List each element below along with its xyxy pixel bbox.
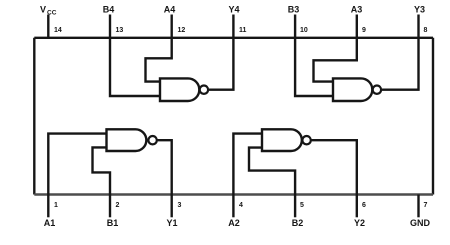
pin 2 stub (B1) bbox=[109, 195, 111, 218]
svg-text:13: 13 bbox=[116, 27, 124, 34]
NAND gate U1D (gate 4) bbox=[160, 78, 199, 101]
wire gate3 output to Y3 pin8 bbox=[381, 38, 418, 90]
svg-text:A3: A3 bbox=[351, 5, 363, 15]
wire A3 pin9 jog to gate3 upper input bbox=[314, 38, 357, 82]
wire gate4 output to Y4 pin11 bbox=[208, 38, 233, 90]
NAND gate U1A (gate 1) bbox=[107, 129, 147, 151]
svg-text:A4: A4 bbox=[164, 5, 176, 15]
NAND gate U1B (gate 2) bbox=[262, 129, 302, 151]
svg-text:B1: B1 bbox=[107, 218, 119, 228]
svg-text:Y2: Y2 bbox=[354, 218, 365, 228]
pin 1 stub (A1) bbox=[47, 195, 49, 218]
svg-text:GND: GND bbox=[410, 218, 431, 228]
wire gate2 output to Y2 pin6 bbox=[311, 140, 357, 194]
pin 5 stub (B2) bbox=[294, 195, 296, 218]
svg-text:2: 2 bbox=[116, 202, 120, 209]
svg-text:9: 9 bbox=[362, 27, 366, 34]
svg-text:3: 3 bbox=[178, 202, 182, 209]
svg-text:Y3: Y3 bbox=[414, 5, 425, 15]
pin 8 stub (Y3) bbox=[417, 15, 419, 38]
inverter bubble gate 3 bbox=[373, 86, 381, 94]
svg-text:6: 6 bbox=[362, 202, 366, 209]
svg-text:5: 5 bbox=[300, 202, 304, 209]
svg-text:8: 8 bbox=[424, 27, 428, 34]
svg-text:B3: B3 bbox=[288, 5, 300, 15]
IC body outline U1 (14-pin DIP) bbox=[34, 38, 433, 195]
wire B4 pin13 to gate4 lower input bbox=[110, 38, 160, 96]
wire A4 pin12 jog to gate4 upper input bbox=[146, 38, 172, 82]
svg-text:14: 14 bbox=[54, 27, 62, 34]
svg-text:1: 1 bbox=[54, 202, 58, 209]
svg-text:A1: A1 bbox=[44, 218, 56, 228]
svg-text:10: 10 bbox=[300, 27, 308, 34]
wire B1 pin2 jog to gate1 lower input bbox=[93, 147, 111, 194]
wire A1 pin1 to gate1 upper input bbox=[48, 134, 106, 195]
svg-text:A2: A2 bbox=[228, 218, 240, 228]
svg-text:Y1: Y1 bbox=[166, 218, 177, 228]
svg-text:12: 12 bbox=[178, 27, 186, 34]
inverter bubble gate 2 bbox=[302, 136, 310, 144]
inverter bubble gate 4 bbox=[200, 86, 208, 94]
pin 9 stub (A3) bbox=[356, 15, 358, 38]
pin 3 stub (Y1) bbox=[170, 195, 172, 218]
svg-text:CC: CC bbox=[47, 9, 57, 16]
svg-text:4: 4 bbox=[239, 202, 243, 209]
NAND gate U1C (gate 3) bbox=[333, 78, 372, 101]
svg-text:Y4: Y4 bbox=[228, 5, 239, 15]
wire B2 pin5 jog to gate2 lower input bbox=[249, 148, 295, 195]
pin 11 stub (Y4) bbox=[232, 15, 234, 38]
pin 6 stub (Y2) bbox=[356, 195, 358, 218]
wire A2 pin4 to gate2 upper input bbox=[233, 134, 262, 195]
svg-text:B2: B2 bbox=[292, 218, 304, 228]
svg-text:7: 7 bbox=[424, 202, 428, 209]
pin 13 stub (B4) bbox=[109, 15, 111, 38]
pin 14 stub (VCC) bbox=[47, 15, 49, 38]
svg-text:11: 11 bbox=[239, 27, 247, 34]
pin 4 stub (A2) bbox=[232, 195, 234, 218]
wire gate1 output to Y1 pin3 bbox=[157, 140, 172, 194]
pin 12 stub (A4) bbox=[170, 15, 172, 38]
svg-text:B4: B4 bbox=[103, 5, 115, 15]
pin 7 stub (GND) bbox=[417, 195, 419, 218]
wire B3 pin10 to gate3 lower input bbox=[295, 38, 333, 96]
inverter bubble gate 1 bbox=[148, 136, 156, 144]
svg-text:V: V bbox=[40, 5, 46, 15]
pin 10 stub (B3) bbox=[294, 15, 296, 38]
